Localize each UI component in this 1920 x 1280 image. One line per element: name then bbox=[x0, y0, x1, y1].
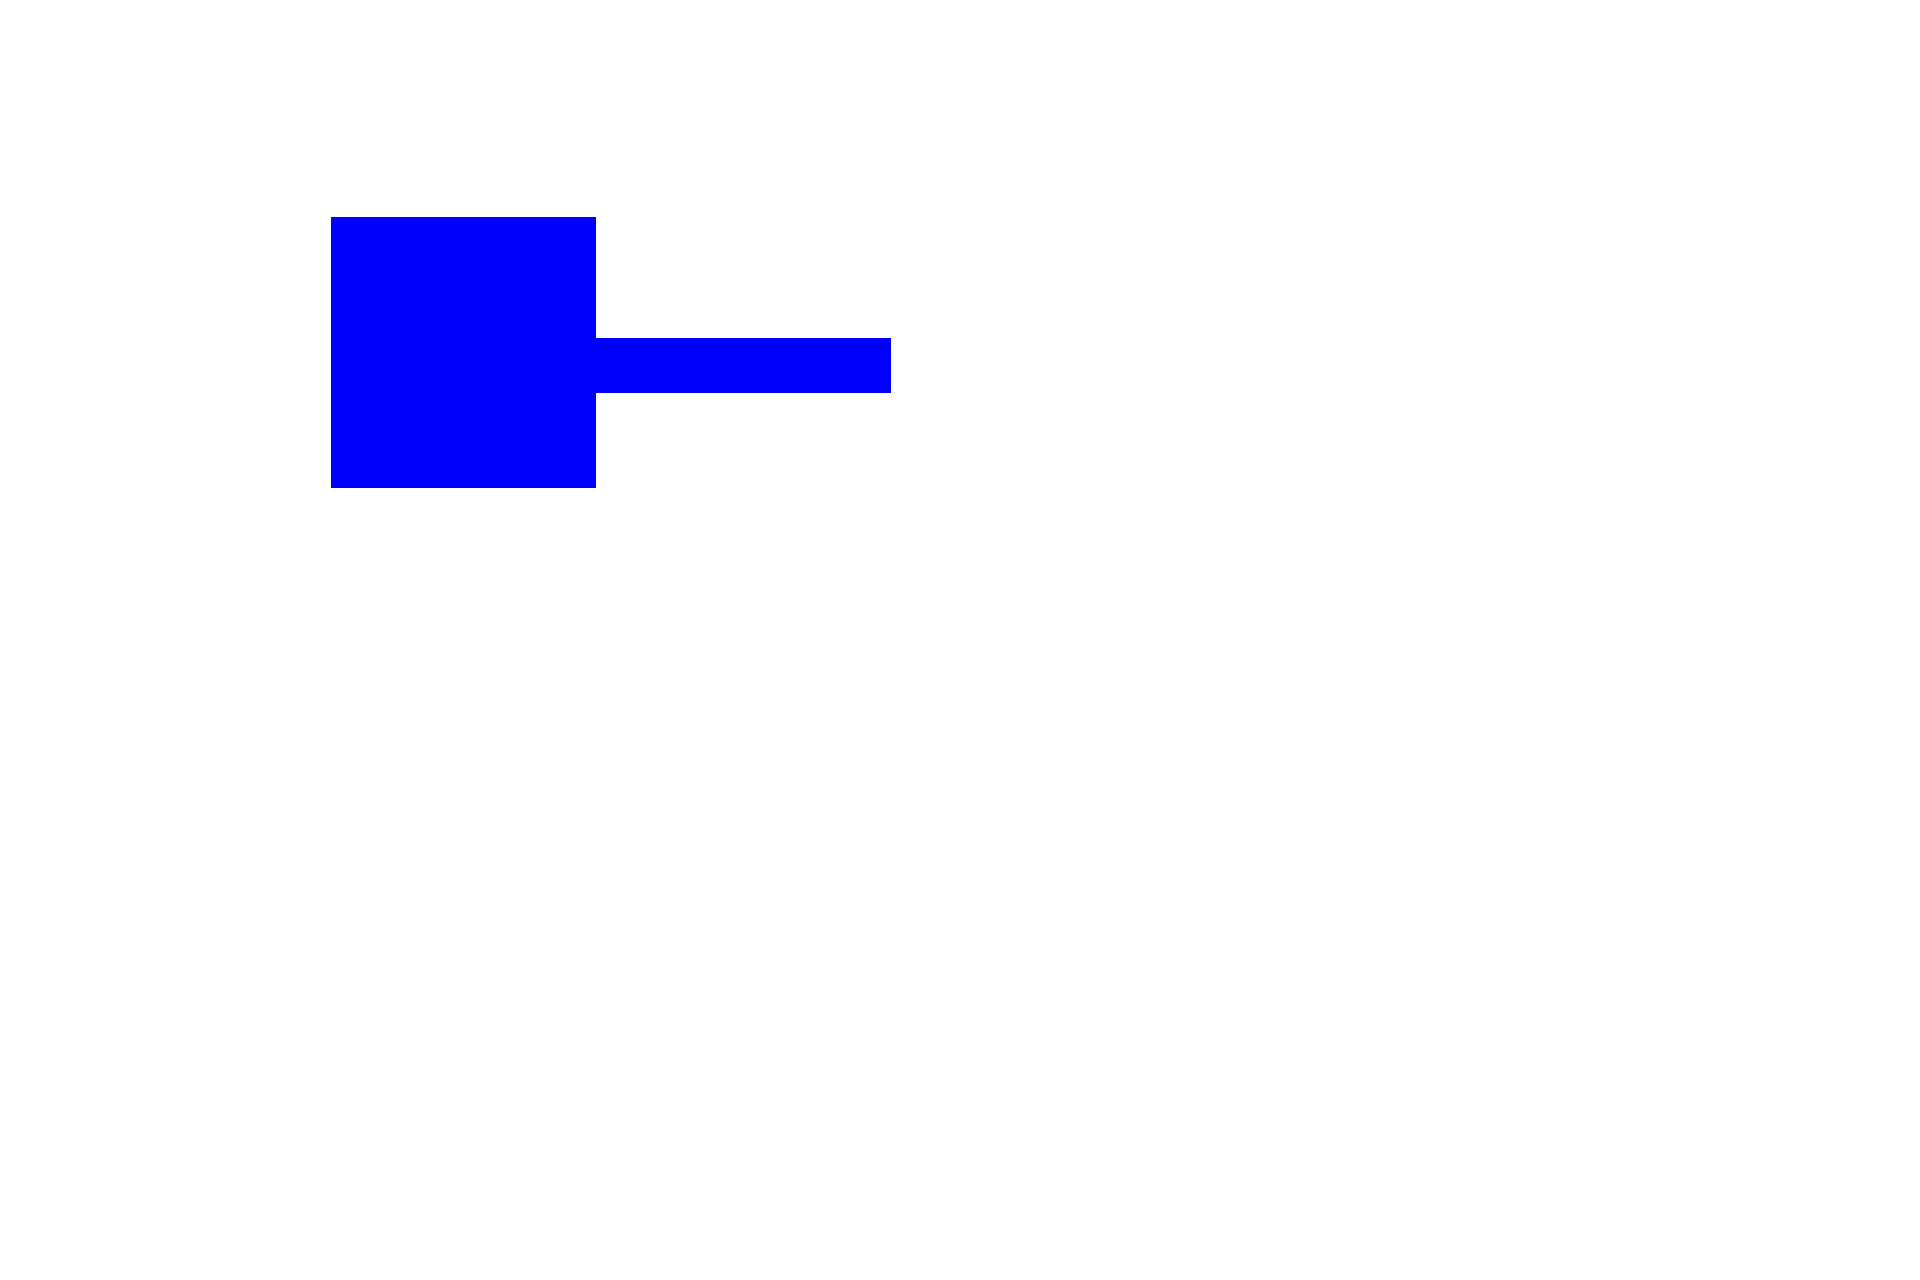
blue square bbox=[331, 217, 596, 488]
blue horizontal bar bbox=[594, 338, 891, 393]
